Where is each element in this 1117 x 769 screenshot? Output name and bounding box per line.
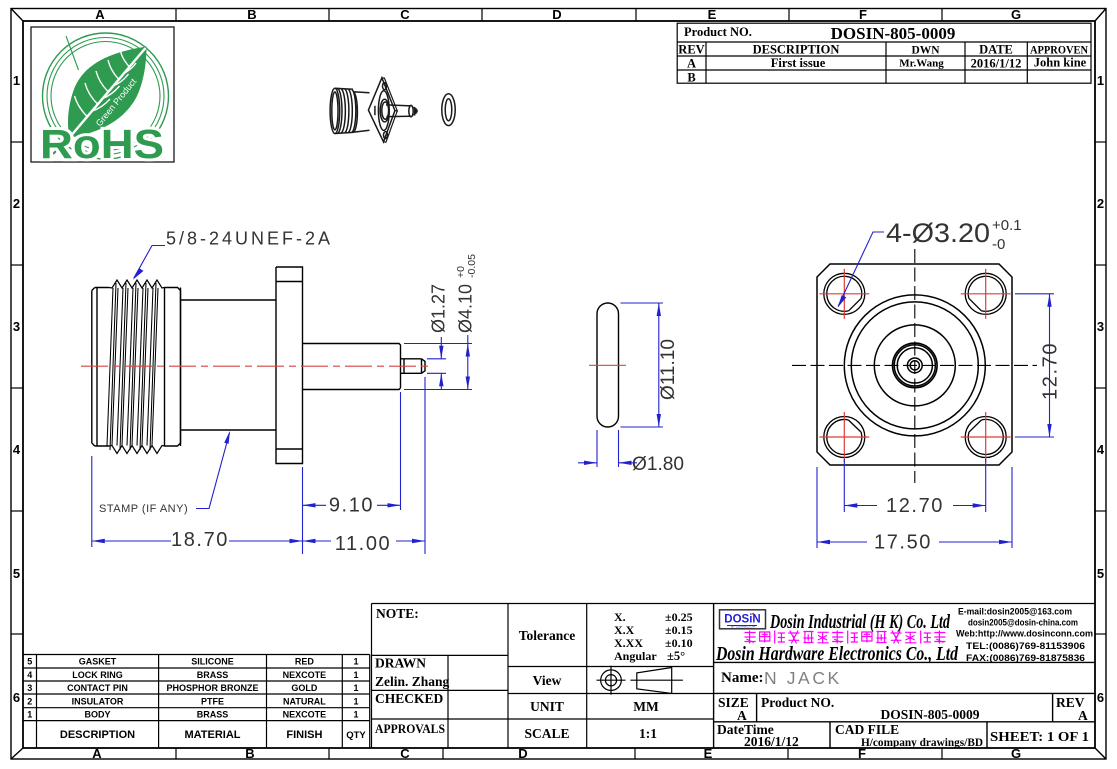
svg-text:Product NO.: Product NO. <box>684 25 752 39</box>
svg-text:GOLD: GOLD <box>291 683 317 693</box>
svg-text:REV: REV <box>678 43 704 57</box>
thread section top profile <box>109 280 165 288</box>
flange disc <box>276 267 303 464</box>
svg-text:11.00: 11.00 <box>335 533 392 555</box>
svg-text:SILICONE: SILICONE <box>191 657 234 667</box>
svg-text:GASKET: GASKET <box>79 657 117 667</box>
svg-text:BRASS: BRASS <box>197 710 229 720</box>
svg-text:Ø11.10: Ø11.10 <box>658 339 679 400</box>
front view flange <box>817 264 1012 465</box>
dim line d4.10 <box>467 335 469 390</box>
svg-text:FAX:(0086)769-81875836: FAX:(0086)769-81875836 <box>966 653 1085 663</box>
zone numbers right <box>1097 73 1105 705</box>
svg-text:QTY: QTY <box>346 730 366 741</box>
tolerance and scale block <box>508 604 714 748</box>
svg-text:1: 1 <box>1097 73 1104 88</box>
center pin <box>401 359 426 374</box>
iso flange holes <box>383 83 387 90</box>
svg-text:NOTE:: NOTE: <box>376 606 419 621</box>
svg-text:A: A <box>737 708 747 723</box>
svg-text:NEXCOTE: NEXCOTE <box>283 710 327 720</box>
svg-text:CHECKED: CHECKED <box>375 691 444 706</box>
svg-text:1: 1 <box>353 670 358 680</box>
main barrel <box>181 288 277 447</box>
revision table <box>677 23 1091 84</box>
svg-text:9.10: 9.10 <box>329 495 374 517</box>
svg-text:1: 1 <box>13 73 20 88</box>
svg-text:1: 1 <box>353 710 358 720</box>
concentric circles <box>844 295 985 436</box>
svg-text:2016/1/12: 2016/1/12 <box>971 57 1022 71</box>
hex ring after threads <box>165 288 181 447</box>
svg-text:1: 1 <box>353 657 358 667</box>
mounting hole top-right <box>965 273 1006 314</box>
svg-text:F: F <box>859 7 867 22</box>
svg-text:X.XX: X.XX <box>614 636 643 650</box>
leader 5/8-24UNEF-2A <box>134 246 165 279</box>
svg-text:View: View <box>533 673 562 688</box>
view projection symbol <box>597 666 683 695</box>
red centerline side view <box>81 365 431 367</box>
svg-text:B: B <box>687 71 695 85</box>
svg-text:2: 2 <box>27 697 32 707</box>
blue arrowheads side view <box>92 268 470 543</box>
note and approvals block <box>372 604 1096 748</box>
svg-text:FINISH: FINISH <box>286 729 322 741</box>
red centerline gasket <box>589 364 626 366</box>
svg-text:DESCRIPTION: DESCRIPTION <box>753 43 840 57</box>
svg-text:3: 3 <box>1097 319 1104 334</box>
mounting hole top-left <box>824 273 865 314</box>
svg-text:5: 5 <box>27 657 32 667</box>
svg-text:E: E <box>704 746 713 761</box>
svg-text:NATURAL: NATURAL <box>283 697 326 707</box>
svg-text:BRASS: BRASS <box>197 670 229 680</box>
svg-text:12.70: 12.70 <box>886 495 944 517</box>
iso body cylinder <box>353 92 370 133</box>
parts list table <box>23 655 370 748</box>
svg-text:5: 5 <box>13 566 20 581</box>
dims front view <box>817 232 1054 548</box>
dim line 9.10 <box>303 504 327 506</box>
svg-text:SHEET: 1 OF 1: SHEET: 1 OF 1 <box>990 729 1089 744</box>
leaf <box>68 47 147 138</box>
iso flange corner edge <box>374 106 376 115</box>
svg-text:6: 6 <box>1097 690 1104 705</box>
svg-text:12.70: 12.70 <box>1040 342 1062 400</box>
svg-text:DRAWN: DRAWN <box>375 656 426 671</box>
svg-text:3: 3 <box>13 319 20 334</box>
svg-text:Dosin Industrial (H K) Co. Ltd: Dosin Industrial (H K) Co. Ltd <box>769 612 950 633</box>
svg-text:Tolerance: Tolerance <box>519 628 576 643</box>
thread flank lines <box>107 283 158 450</box>
svg-text:DWN: DWN <box>911 45 940 57</box>
svg-text:4: 4 <box>1097 442 1105 457</box>
decorative diagonal line <box>66 36 79 70</box>
iso o-ring gasket <box>442 94 455 126</box>
svg-text:E: E <box>708 7 717 22</box>
svg-text:DESCRIPTION: DESCRIPTION <box>60 729 135 741</box>
svg-text:X.X: X.X <box>614 623 635 637</box>
size row <box>717 695 1089 749</box>
svg-text:+0.1: +0.1 <box>992 217 1022 234</box>
svg-text:C: C <box>400 746 410 761</box>
rear shaft <box>303 344 401 390</box>
svg-text:17.50: 17.50 <box>874 532 932 554</box>
svg-text:±5°: ±5° <box>667 649 685 663</box>
dims gasket <box>578 303 663 467</box>
svg-text:C: C <box>400 7 410 22</box>
svg-text:1:1: 1:1 <box>639 726 657 741</box>
svg-text:N JACK: N JACK <box>764 668 842 688</box>
svg-text:2: 2 <box>1097 196 1104 211</box>
svg-text:D: D <box>552 7 561 22</box>
svg-text:A: A <box>687 57 696 71</box>
zone letters bottom <box>92 746 1021 761</box>
svg-text:MM: MM <box>633 699 659 714</box>
iso center boss rings <box>378 91 389 131</box>
RoHS logo <box>31 27 174 167</box>
svg-text:TEL:(0086)769-81153906: TEL:(0086)769-81153906 <box>966 641 1085 651</box>
svg-text:BODY: BODY <box>84 710 110 720</box>
svg-text:4: 4 <box>27 670 32 680</box>
svg-text:D: D <box>518 746 527 761</box>
svg-text:STAMP (IF ANY): STAMP (IF ANY) <box>99 503 188 515</box>
svg-text:DOSIN-805-0009: DOSIN-805-0009 <box>831 24 956 43</box>
dim line 18.70 <box>92 540 171 542</box>
mounting hole bottom-left <box>824 417 865 458</box>
svg-text:CONTACT PIN: CONTACT PIN <box>67 683 128 693</box>
dim line d1.27 <box>440 337 442 359</box>
svg-text:UNIT: UNIT <box>530 699 564 714</box>
svg-text:Angular: Angular <box>614 649 657 663</box>
svg-text:±0.15: ±0.15 <box>665 623 693 637</box>
svg-text:±0.25: ±0.25 <box>665 610 693 624</box>
svg-text:18.70: 18.70 <box>171 529 229 551</box>
red crosshairs mounting holes <box>819 269 1010 462</box>
iso threaded barrel <box>330 88 340 133</box>
svg-text:A: A <box>1078 708 1088 723</box>
svg-text:1: 1 <box>27 710 32 720</box>
title block <box>714 604 1095 749</box>
svg-text:DATE: DATE <box>979 43 1013 57</box>
svg-text:2: 2 <box>13 196 20 211</box>
black dashed centerlines front view <box>792 249 1037 483</box>
svg-text:E-mail:dosin2005@163.com: E-mail:dosin2005@163.com <box>958 607 1072 617</box>
svg-text:X.: X. <box>614 610 626 624</box>
svg-text:G: G <box>1011 746 1021 761</box>
dim line 11.00 <box>303 540 332 542</box>
svg-text:LOCK RING: LOCK RING <box>72 670 123 680</box>
zone numbers left <box>13 73 21 705</box>
svg-text:A: A <box>95 7 105 22</box>
thread section bottom profile <box>109 446 165 454</box>
svg-text:1: 1 <box>353 697 358 707</box>
svg-text:1: 1 <box>353 683 358 693</box>
svg-text:NEXCOTE: NEXCOTE <box>283 670 327 680</box>
svg-text:dosin2005@dosin-china.com: dosin2005@dosin-china.com <box>968 618 1078 628</box>
svg-text:Product NO.: Product NO. <box>761 695 834 710</box>
svg-text:±0.10: ±0.10 <box>665 636 693 650</box>
iso flange plate <box>368 78 395 142</box>
side view of connector body <box>92 267 425 464</box>
svg-text:A: A <box>92 746 102 761</box>
company name chinese (magenta) <box>745 631 946 644</box>
svg-text:5: 5 <box>1097 566 1104 581</box>
svg-text:Ø1.80: Ø1.80 <box>632 454 684 475</box>
svg-text:PTFE: PTFE <box>201 697 224 707</box>
svg-text:SCALE: SCALE <box>524 726 569 741</box>
mounting hole bottom-right <box>965 417 1006 458</box>
flange square outline <box>817 264 1012 465</box>
contact info <box>956 607 1093 664</box>
svg-text:PHOSPHOR BRONZE: PHOSPHOR BRONZE <box>166 683 258 693</box>
svg-text:INSULATOR: INSULATOR <box>72 697 124 707</box>
svg-text:RED: RED <box>295 657 315 667</box>
leaf stem <box>53 138 70 155</box>
svg-text:Name:: Name: <box>721 670 763 686</box>
svg-text:BY CONNECTOR: BY CONNECTOR <box>731 625 756 629</box>
zone letters top <box>95 7 1021 22</box>
svg-text:6: 6 <box>13 690 20 705</box>
svg-text:First issue: First issue <box>771 56 826 70</box>
svg-text:Mr.Wang: Mr.Wang <box>899 58 944 70</box>
svg-text:RoHS: RoHS <box>40 121 164 167</box>
svg-text:B: B <box>247 7 256 22</box>
coupling nut cap <box>92 288 109 447</box>
DOSIN logo <box>720 610 766 629</box>
svg-text:Ø4.10: Ø4.10 <box>456 284 476 333</box>
isometric view of connector <box>330 78 455 142</box>
svg-text:H/company drawings/BD: H/company drawings/BD <box>861 735 983 749</box>
svg-text:3: 3 <box>27 683 32 693</box>
svg-text:2016/1/12: 2016/1/12 <box>744 734 799 749</box>
svg-text:-0: -0 <box>992 236 1005 253</box>
svg-text:-0.05: -0.05 <box>466 254 478 278</box>
svg-text:DOSIN-805-0009: DOSIN-805-0009 <box>880 707 979 722</box>
svg-text:Web:http://www.dosinconn.com: Web:http://www.dosinconn.com <box>956 629 1093 639</box>
leader STAMP <box>196 433 230 509</box>
svg-text:John kine: John kine <box>1034 56 1087 70</box>
svg-text:Dosin Hardware Electronics Co.: Dosin Hardware Electronics Co., Ltd <box>715 644 958 665</box>
svg-text:B: B <box>245 746 254 761</box>
svg-text:MATERIAL: MATERIAL <box>184 729 240 741</box>
svg-text:4-Ø3.20: 4-Ø3.20 <box>886 218 990 248</box>
blue dimensions side view <box>92 246 472 555</box>
gasket side view (stadium) <box>597 303 619 427</box>
svg-text:APPROVALS: APPROVALS <box>375 722 445 736</box>
iso pin <box>386 105 411 117</box>
svg-text:5/8-24UNEF-2A: 5/8-24UNEF-2A <box>166 229 333 249</box>
extension lines <box>91 456 93 547</box>
svg-text:Zelin. Zhang: Zelin. Zhang <box>375 674 450 689</box>
svg-text:Ø1.27: Ø1.27 <box>429 284 449 333</box>
svg-text:G: G <box>1011 7 1021 22</box>
svg-text:4: 4 <box>13 442 21 457</box>
